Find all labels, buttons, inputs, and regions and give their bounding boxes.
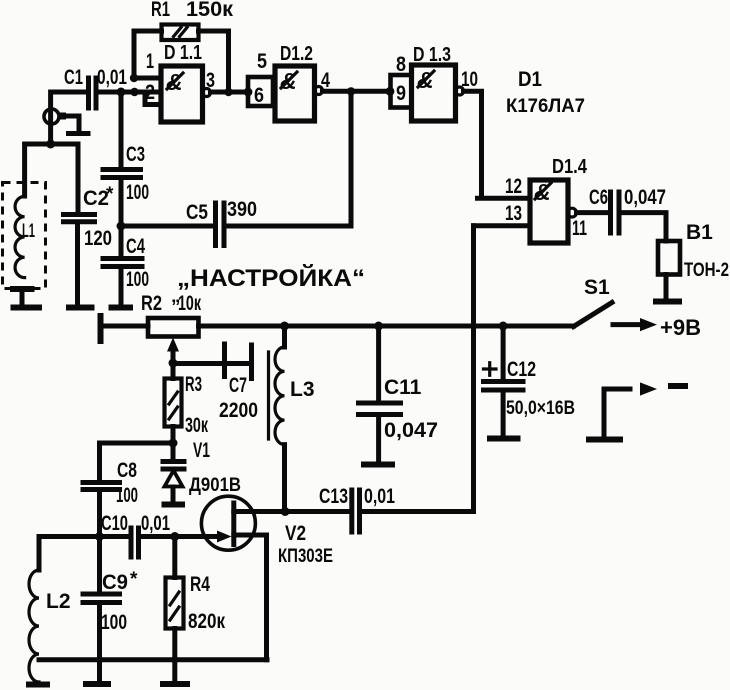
svg-text:C10: C10	[101, 512, 128, 535]
ground V1	[162, 502, 186, 508]
shield dashed box around L1	[3, 183, 46, 289]
capacitor C9	[83, 537, 138, 682]
svg-text:D 1.3: D 1.3	[413, 44, 451, 66]
ground B1	[653, 299, 682, 305]
svg-text:9: 9	[396, 82, 406, 105]
pin 3 output bubble of D1.1	[203, 69, 216, 97]
pin 4 output bubble of D1.2	[315, 69, 331, 95]
ground C11	[361, 462, 395, 468]
capacitor C12 electrolytic	[484, 322, 576, 437]
svg-text:5: 5	[257, 50, 267, 73]
resistor R3	[165, 364, 209, 444]
svg-text:D1.4: D1.4	[552, 156, 588, 178]
ground L2	[26, 682, 50, 688]
svg-text:L2: L2	[46, 590, 71, 613]
svg-text:30к: 30к	[185, 414, 208, 437]
capacitor C3	[103, 143, 149, 256]
svg-text:0,01: 0,01	[141, 512, 170, 535]
wire C10 node	[39, 532, 129, 541]
ground C4	[109, 305, 134, 311]
svg-text:R1: R1	[151, 0, 170, 21]
svg-text:R4: R4	[190, 573, 210, 596]
node R3/V1/C8 junction	[100, 439, 178, 482]
svg-text:C13: C13	[319, 485, 348, 508]
svg-text:100: 100	[101, 611, 127, 634]
svg-text:50,0×16В: 50,0×16В	[506, 398, 575, 419]
label D1	[518, 68, 542, 91]
op-amp gate D1.1	[161, 42, 203, 122]
svg-text:C9: C9	[102, 571, 128, 594]
pins 5-6 bracket of D1.2	[244, 50, 273, 107]
svg-text:12: 12	[505, 175, 522, 198]
ground L1	[11, 305, 43, 311]
svg-text:0,01: 0,01	[364, 485, 395, 508]
svg-text:8: 8	[396, 53, 406, 76]
wire node A to L1 and C2	[25, 144, 78, 213]
svg-text:C7: C7	[229, 374, 247, 397]
svg-text:0,047: 0,047	[384, 419, 438, 442]
svg-text:100: 100	[116, 484, 138, 507]
svg-text:13: 13	[505, 202, 522, 225]
resistor R1	[134, 0, 233, 91]
capacitor C13	[285, 485, 473, 532]
svg-text:„НАСТРОЙКА“: „НАСТРОЙКА“	[177, 264, 365, 292]
svg-text:820к: 820к	[188, 610, 225, 633]
op-amp gate D1.4	[530, 156, 588, 243]
svg-text:R3: R3	[185, 373, 202, 396]
svg-text:C4: C4	[126, 235, 145, 258]
pin 2 of D1.1	[130, 81, 161, 105]
svg-text:100: 100	[126, 268, 149, 291]
svg-text:4: 4	[321, 69, 330, 92]
svg-text:+9В: +9В	[660, 315, 701, 340]
wire bus R2 to S1	[199, 324, 574, 329]
svg-text:*: *	[106, 184, 114, 205]
svg-text:Д901В: Д901В	[189, 475, 241, 496]
transistor V2 KP303E	[175, 496, 333, 660]
node A junction below X1	[46, 140, 55, 149]
svg-text:2: 2	[145, 81, 155, 104]
wire D1.3 out to D1.4 pin 12	[464, 91, 531, 198]
connector X1	[44, 109, 91, 134]
svg-text:ТОН-2: ТОН-2	[684, 260, 729, 281]
wire C1 to connector X1	[51, 92, 86, 144]
svg-text:C6: C6	[589, 186, 608, 209]
svg-text:1: 1	[146, 50, 154, 73]
svg-text:D1.2: D1.2	[280, 43, 313, 65]
svg-text:100: 100	[126, 181, 149, 204]
inductor L3	[269, 322, 315, 512]
wire bus left to R2	[103, 324, 148, 329]
pin 1 of D1.1	[130, 50, 161, 82]
svg-text:L1: L1	[22, 221, 35, 242]
svg-text:C5: C5	[186, 201, 208, 224]
op-amp gate D1.3	[412, 44, 456, 121]
capacitor C6	[577, 186, 667, 241]
svg-text:V1: V1	[193, 439, 210, 462]
pin 13 of D1.4	[474, 202, 531, 226]
ground C2	[66, 305, 95, 311]
node junction C3/C4/C5	[117, 222, 126, 231]
svg-text:2200: 2200	[219, 399, 258, 422]
svg-text:D1: D1	[518, 68, 542, 91]
inductor L1	[10, 196, 35, 303]
label K176LA7	[506, 96, 585, 117]
svg-text:0,047: 0,047	[624, 186, 666, 209]
wire D1.1 out to D1.2 in	[211, 88, 249, 96]
ground C9	[83, 681, 111, 687]
capacitor C4	[103, 235, 149, 305]
headphone B1 TON-2	[658, 221, 729, 299]
pin 12 of D1.4	[505, 175, 522, 198]
wire C1 node down to C3	[119, 92, 124, 167]
svg-text:C12: C12	[507, 358, 536, 381]
node junction C1/C3	[117, 88, 126, 97]
wire bottom rail	[39, 656, 267, 663]
capacitor C5	[121, 92, 351, 246]
switch S1	[574, 276, 613, 327]
minus terminal to ground	[586, 382, 688, 439]
arrow +9V	[613, 315, 701, 340]
varicap V1	[163, 439, 241, 501]
svg-text:L3: L3	[290, 378, 315, 401]
svg-text:*: *	[130, 569, 138, 590]
pin 10 output bubble of D1.3	[456, 68, 479, 95]
wire D1.2 out to D1.3 in	[323, 87, 395, 96]
node wiper junction	[169, 359, 178, 368]
svg-text:S1: S1	[584, 276, 610, 299]
capacitor C7	[173, 344, 258, 422]
svg-text:D 1.1: D 1.1	[164, 42, 202, 64]
svg-text:R2: R2	[141, 292, 162, 315]
svg-text:C1: C1	[64, 66, 83, 89]
svg-text:В1: В1	[686, 221, 713, 244]
pin 11 output bubble of D1.4	[568, 208, 588, 240]
svg-text:КП303Е: КП303Е	[278, 546, 333, 567]
label NASTROJKA	[177, 264, 365, 292]
svg-text:0,01: 0,01	[97, 66, 127, 89]
svg-text:C8: C8	[117, 459, 137, 482]
svg-text:150к: 150к	[186, 0, 233, 21]
capacitor C2	[64, 184, 115, 305]
svg-text:V2: V2	[285, 522, 306, 545]
capacitor C11	[359, 322, 439, 463]
capacitor C10	[101, 512, 179, 557]
svg-text:6: 6	[254, 84, 264, 107]
capacitor C1	[64, 66, 134, 108]
svg-text:11: 11	[572, 217, 587, 240]
ground C12	[487, 436, 521, 442]
inductor L2	[29, 537, 71, 683]
potentiometer R2	[141, 286, 201, 363]
ground R4	[160, 681, 190, 687]
svg-text:10к: 10к	[178, 292, 201, 315]
node drain junction	[281, 507, 290, 516]
capacitor C8	[83, 459, 138, 537]
svg-text:120: 120	[84, 227, 112, 250]
svg-text:390: 390	[227, 198, 257, 221]
svg-text:3: 3	[206, 69, 215, 92]
pins 8-9 bracket of D1.3	[391, 53, 412, 108]
wire pin13 vertical down to C13	[471, 226, 476, 512]
ground terminal bar at R2 left	[98, 313, 104, 344]
svg-text:К176ЛА7: К176ЛА7	[506, 96, 585, 117]
svg-text:C3: C3	[126, 143, 145, 166]
svg-text:C11: C11	[384, 376, 422, 399]
op-amp gate D1.2	[275, 43, 315, 121]
resistor R4	[166, 537, 226, 682]
svg-text:10: 10	[461, 68, 478, 91]
